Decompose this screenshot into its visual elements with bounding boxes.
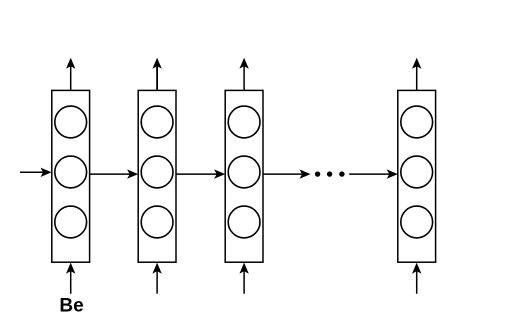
recurrent arrow L2 to L3 [176, 169, 225, 178]
layer box L4 [398, 90, 436, 262]
unit circle L2-1 [141, 106, 173, 138]
unit circle L1-1 [55, 106, 87, 138]
output arrow up L4 [412, 58, 421, 91]
unit circle L1-3 [55, 206, 87, 238]
recurrent arrow ellipsis to L4 [349, 169, 398, 178]
unit circle L3-1 [228, 106, 260, 138]
input arrow up into L4 bottom [412, 263, 421, 294]
svg-text:Be: Be [59, 296, 83, 317]
ellipsis dots [315, 171, 345, 176]
recurrent arrow L1 to L2 [90, 169, 138, 178]
unit circle L4-2 [401, 156, 433, 188]
unit circle L3-2 [228, 156, 260, 188]
output arrow up L1 [66, 58, 75, 91]
unit circle L4-3 [401, 206, 433, 238]
input arrow up into L2 bottom [152, 263, 161, 294]
unit circle L4-1 [401, 106, 433, 138]
input arrow up into L1 bottom [66, 263, 75, 294]
unit circle L2-2 [141, 156, 173, 188]
unit circle L1-2 [55, 156, 87, 188]
layer box L3 [225, 90, 263, 262]
unit circle L2-3 [141, 206, 173, 238]
recurrent arrow L3 to ellipsis [263, 169, 310, 178]
left input arrow into L1 [20, 168, 52, 177]
output arrow up L3 [239, 58, 248, 91]
unit circle L3-3 [228, 206, 260, 238]
output arrow up L2 [152, 58, 161, 91]
layer box L2 [138, 90, 176, 262]
layer box L1 [52, 90, 90, 262]
input arrow up into L3 bottom [239, 263, 248, 294]
